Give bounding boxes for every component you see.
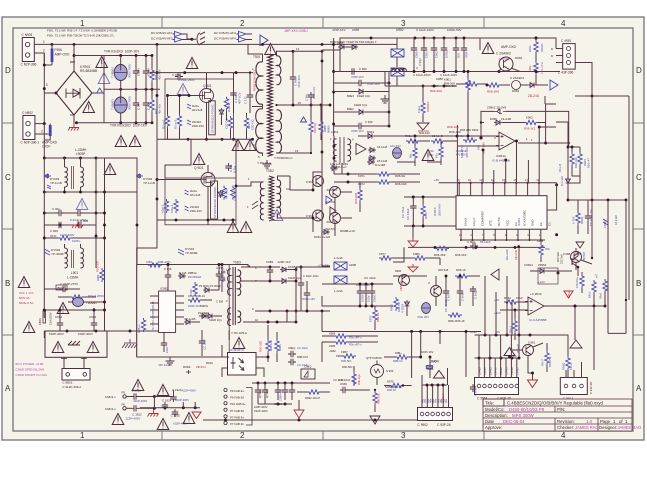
diode 41D19: [405, 300, 410, 308]
svg-text:K977: K977: [379, 252, 386, 256]
title block: [483, 399, 632, 431]
svg-text:R9B+x: R9B+x: [137, 324, 141, 333]
svg-text:ZD9-15V: ZD9-15V: [190, 209, 202, 213]
svg-text:K06x: K06x: [528, 65, 532, 72]
resistor col tr2: [592, 280, 596, 294]
svg-text:K02P-400V: K02P-400V: [182, 389, 196, 393]
svg-text:R96x R06-1K: R96x R06-1K: [448, 319, 465, 323]
wire T902 sec leads: [278, 214, 314, 218]
svg-text:D965: D965: [490, 117, 497, 121]
wire x594 down: [593, 306, 595, 370]
svg-text:K3D OQ: K3D OQ: [251, 119, 255, 130]
capacitor C906: [56, 222, 64, 228]
wire ic pin up2: [505, 160, 507, 183]
svg-text:470P-1KV: 470P-1KV: [351, 129, 364, 133]
capacitor C96Q: [470, 286, 476, 294]
svg-text:40x 43V: 40x 43V: [158, 69, 162, 80]
svg-text:C962: C962: [435, 51, 439, 58]
capacitor C9x7 sb: [161, 340, 167, 348]
transformer T901 core: [268, 54, 273, 156]
svg-text:3: 3: [401, 431, 406, 440]
svg-text:K972: K972: [369, 315, 373, 322]
open triangle q961 gnd: [528, 380, 538, 388]
resistor R9B-10: [188, 298, 202, 302]
wire right edge rail: [575, 95, 629, 97]
svg-text:C 1924: C 1924: [162, 399, 172, 403]
warning triangle amp: [482, 43, 494, 54]
resistor R908 gate: [224, 97, 228, 111]
svg-text:C9BQ: C9BQ: [304, 365, 311, 369]
svg-text:R9B1: R9B1: [278, 344, 282, 351]
svg-text:470P: 470P: [465, 51, 469, 58]
resistor R0B-1H0: [266, 339, 270, 353]
connector CN9B3: [475, 378, 519, 401]
wire q2 vbus2: [388, 72, 390, 127]
transistor Q960 ring: [499, 57, 513, 71]
wire sec out mid: [310, 100, 312, 105]
wire bridge left lead: [44, 92, 56, 94]
svg-text:R9x5: R9x5: [599, 292, 603, 299]
resistor R914: [174, 199, 178, 213]
svg-text:23C 9x6: 23C 9x6: [560, 254, 564, 264]
svg-text:P7 FAB-9+: P7 FAB-9+: [230, 415, 244, 419]
svg-text:IC-9.A455BB: IC-9.A455BB: [529, 318, 547, 322]
svg-text:C9+9: C9+9: [569, 363, 573, 370]
inductor L963 xbox: [391, 68, 404, 76]
capacitor C904: [133, 100, 139, 108]
svg-text:60x: 60x: [409, 153, 413, 158]
transformer T903: [226, 261, 259, 336]
box lower driver: [165, 178, 236, 225]
wire choke bottom rail: [44, 191, 96, 193]
capacitor bm3: [289, 387, 295, 395]
resistor R96x h1: [406, 139, 420, 143]
svg-text:IC-T09 L02P2BG5R-M: IC-T09 L02P2BG5R-M: [151, 301, 155, 330]
capacitor sec c1: [298, 280, 304, 288]
resistor K971: [377, 172, 391, 176]
capacitor C962b: [431, 45, 437, 53]
wire gate row: [168, 95, 202, 97]
svg-text:2: 2: [240, 431, 245, 440]
resistor R9B4 otp: [395, 355, 409, 359]
wire bottom long rail: [252, 419, 418, 421]
svg-text:R06-1K: R06-1K: [456, 268, 466, 272]
svg-text:1000u 50V: 1000u 50V: [447, 28, 462, 32]
svg-text:R05x: R05x: [528, 45, 532, 52]
wire sec vert 296: [295, 267, 297, 311]
svg-text:C9+x3: C9+x3: [505, 367, 509, 375]
wire right col rail2: [568, 199, 626, 201]
wire opto left pins: [222, 345, 228, 357]
svg-text:C 10uF-100x: C 10uF-100x: [303, 274, 319, 278]
TVR box sides: [103, 56, 105, 90]
zener z9962 sym: [494, 109, 506, 113]
capacitor C965b: [411, 45, 417, 53]
svg-text:B9E2: B9E2: [347, 107, 354, 111]
small transformer T951: [330, 130, 354, 169]
svg-text:A9x: A9x: [445, 398, 448, 403]
svg-text:1000u: 1000u: [445, 50, 449, 58]
svg-text:IC9B2: IC9B2: [160, 287, 169, 291]
svg-text:R06-9H6: R06-9H6: [395, 182, 407, 186]
svg-text:CC 10uF: CC 10uF: [406, 208, 410, 220]
svg-text:C 912P-396-2: C 912P-396-2: [62, 385, 81, 389]
wire q4 feed: [322, 265, 330, 267]
svg-text:F901 T5.1-6W R06-1-F T2 5-6: F901 T5.1-6W R06-1-F T2 5-6W +1.5K/6BER …: [47, 29, 117, 33]
capacitor C474: [60, 286, 68, 292]
svg-text:MIDE 8 5A: MIDE 8 5A: [19, 301, 34, 305]
svg-text:Model/Co:: Model/Co:: [485, 407, 505, 412]
wire cn9b3 feed: [518, 247, 520, 358]
warning triangle bl4: [157, 419, 169, 430]
svg-text:P/N:: P/N:: [557, 407, 565, 412]
svg-text:B9E3: B9E3: [347, 94, 354, 98]
transistor Q951: [313, 176, 324, 187]
svg-text:C 2SA9K2: C 2SA9K2: [510, 76, 524, 80]
svg-text:C 93P-2D: C 93P-2D: [589, 382, 593, 394]
diode D965 pair: [494, 120, 502, 125]
svg-text:12: 12: [296, 47, 300, 51]
wire mid right rail: [385, 71, 560, 73]
IC901 top pins: [458, 183, 460, 196]
svg-text:JMP-XXX-XXBU: JMP-XXX-XXBU: [284, 29, 308, 33]
capacitor C1924: [162, 402, 168, 410]
resistor R sec: [309, 120, 313, 134]
wire left bus to Q902: [156, 139, 158, 220]
connector CN951: [558, 39, 575, 75]
wire left feed: [334, 173, 377, 175]
svg-text:222P+400V: 222P+400V: [126, 416, 141, 420]
svg-text:K1ER 1Qx: K1ER 1Qx: [354, 103, 368, 107]
wire bridge right lead: [92, 89, 160, 93]
resistor R964 col: [578, 152, 582, 166]
resistor fb: [463, 138, 477, 142]
diode D916 sb: [178, 274, 186, 279]
wire cn9d2 up: [447, 368, 449, 385]
svg-text:R0B-1H0: R0B-1H0: [269, 339, 273, 351]
resistor sb v: [193, 282, 197, 296]
wire caps row2: [44, 224, 96, 226]
diode ZH904: [185, 190, 189, 195]
wire q4 mid rails: [393, 275, 427, 277]
capacitor bank q4 2: [363, 288, 369, 296]
capacitor C910: [143, 100, 149, 108]
capacitor C911: [225, 163, 231, 171]
resistor R966c: [394, 297, 398, 311]
svg-text:50W 4A: 50W 4A: [19, 296, 30, 300]
wire t903 tap6: [241, 266, 280, 268]
resistor R04-9: [70, 295, 84, 299]
wire q961 to conn: [528, 366, 533, 380]
capacitor C966b: [461, 45, 467, 53]
svg-text:K0x: K0x: [435, 153, 439, 158]
capacitor CC10uF sb: [199, 338, 205, 346]
svg-text:40x 45x: 40x 45x: [158, 103, 162, 114]
svg-text:S 963: S 963: [386, 369, 394, 373]
svg-text:P7 FAB-9x: P7 FAB-9x: [230, 422, 244, 426]
diode ZH903: [187, 104, 191, 109]
svg-text:LM61: LM61: [331, 130, 339, 134]
svg-text:R9B9: R9B9: [323, 125, 327, 132]
svg-text:R942: R942: [504, 296, 511, 300]
open arrow right: [550, 80, 558, 90]
svg-text:E2: E2: [539, 222, 543, 226]
svg-text:Y-TR-92-A: Y-TR-92-A: [257, 161, 271, 165]
relay contact symbol: [68, 341, 80, 345]
transistor Q967: [431, 286, 442, 297]
IC901 KA7500 box: [456, 196, 547, 230]
transistor Q96Bt: [572, 256, 578, 267]
resistor R96x h2: [431, 139, 445, 143]
svg-text:C961: C961: [425, 51, 429, 58]
svg-text:30B: 30B: [606, 285, 610, 290]
svg-text:R96x: R96x: [424, 212, 428, 219]
svg-text:D: D: [551, 47, 553, 51]
resistor R913: [164, 199, 168, 213]
capacitor C9B3: [267, 267, 273, 275]
svg-text:D962: D962: [515, 56, 523, 60]
svg-text:K971: K971: [358, 174, 365, 178]
svg-text:S-TR-9+C: S-TR-9+C: [333, 165, 347, 169]
resistor R06-960: [358, 188, 362, 202]
svg-text:C 2SA9K2: C 2SA9K2: [496, 52, 511, 56]
resistor box C96Q: [426, 366, 432, 369]
wire x466 down: [465, 332, 467, 378]
svg-text:B: B: [636, 279, 641, 288]
capacitor C906 q2: [349, 68, 357, 74]
wire q2 left bus: [333, 38, 335, 136]
capacitor bm4: [340, 387, 348, 393]
svg-text:JAMES RAO: JAMES RAO: [575, 425, 599, 430]
wire relay leads: [63, 357, 65, 368]
svg-text:20A733: 20A733: [327, 188, 338, 192]
resistor K972: [377, 180, 391, 184]
svg-text:100V: 100V: [367, 295, 371, 302]
svg-text:D 916: D 916: [179, 271, 187, 275]
svg-text:4: 4: [561, 431, 566, 440]
varistor TVR903: [114, 97, 127, 113]
svg-text:40x+x0C: 40x+x0C: [505, 249, 509, 260]
open triangle bm: [370, 416, 380, 424]
wire conn to bus: [575, 63, 592, 70]
svg-text:1: 1: [80, 19, 85, 28]
capacitor CC10uF ic: [410, 203, 416, 211]
svg-text:D962: D962: [512, 89, 520, 93]
svg-text:C 909: C 909: [365, 120, 373, 124]
svg-text:STRW6302/02 P3W02C: STRW6302/02 P3W02C: [213, 187, 217, 218]
CN9D2 pin stubs: [421, 385, 423, 408]
svg-text:B964: B964: [367, 130, 374, 134]
svg-text:K0x+1: K0x+1: [161, 204, 165, 213]
svg-text:R9a6: R9a6: [537, 239, 544, 243]
open triangle T951: [356, 144, 366, 155]
svg-text:YP-4D4B: YP-4D4B: [51, 252, 64, 256]
svg-text:0 71B: 0 71B: [572, 217, 576, 224]
svg-text:C 903: C 903: [137, 68, 141, 76]
ground opampB: [408, 264, 418, 272]
svg-text:+12V: +12V: [538, 280, 545, 284]
standby box: [137, 265, 230, 358]
resistor col tr3: [603, 279, 607, 293]
svg-text:C: C: [636, 173, 642, 182]
capacitor C962 sec: [308, 92, 314, 100]
transistor Q952: [313, 210, 324, 221]
transformer T902 core: [269, 176, 274, 221]
resistor R9B5: [373, 391, 377, 405]
svg-text:C N903: C N903: [22, 33, 33, 37]
svg-text:K9B7: K9B7: [436, 77, 444, 81]
svg-text:K986: K986: [329, 344, 336, 348]
capacitor C961b: [421, 45, 427, 53]
wire CN901 pin1 to bus: [34, 43, 52, 45]
warning triangle pair B1: [227, 222, 239, 233]
svg-text:C 91x: C 91x: [172, 73, 180, 77]
wire bm verts: [257, 383, 259, 387]
svg-text:R9D9: R9D9: [183, 365, 191, 369]
resistor R962L: [100, 268, 104, 282]
wire bridge bottom: [73, 115, 75, 124]
svg-text:C 906: C 906: [216, 300, 224, 304]
wire bm rail3: [203, 419, 252, 421]
wire right col top: [556, 121, 568, 123]
warning triangle bl3: [112, 414, 124, 425]
svg-text:R06-100: R06-100: [418, 129, 429, 133]
svg-text:DC R.B/4V-AF3: DC R.B/4V-AF3: [214, 31, 236, 35]
wire cn9b3 rail: [475, 357, 520, 359]
svg-text:50V: 50V: [457, 53, 461, 58]
relay box: [45, 331, 107, 357]
svg-text:R06-960: R06-960: [354, 193, 358, 204]
capacitor C909 q2: [356, 123, 364, 129]
warning triangle pair B2: [240, 222, 252, 233]
svg-text:18 k1x8: 18 k1x8: [614, 215, 618, 225]
svg-text:K9B7: K9B7: [341, 350, 348, 354]
capacitor bank q4 3: [369, 288, 375, 296]
svg-text:K9Bx: K9Bx: [413, 252, 420, 256]
svg-text:TVR K2x1KD 102P-1KV: TVR K2x1KD 102P-1KV: [104, 50, 140, 54]
svg-text:F90x T5.1-6W R06-T2K2W T2 5-: F90x T5.1-6W R06-T2K2W T2 5-6-W 15K/C6BX…: [47, 34, 115, 38]
svg-text:C 904: C 904: [137, 102, 141, 110]
wire filter to bottom: [43, 248, 45, 318]
svg-text:+5V: +5V: [494, 298, 499, 302]
wire mid vertical 1: [165, 139, 191, 178]
wire right vertical bus1: [591, 69, 593, 135]
wire ic pin up1: [482, 150, 484, 183]
svg-text:KA(-)I: KA(-)I: [472, 218, 476, 226]
svg-text:0 961: 0 961: [528, 341, 536, 345]
svg-text:R06-x5x: R06-x5x: [548, 356, 552, 367]
capacitor sec c2: [304, 290, 310, 298]
resistor R942: [504, 300, 518, 304]
svg-text:CN9D SHORT IN USN: CN9D SHORT IN USN: [16, 373, 47, 377]
warning triangle bl1: [132, 380, 144, 391]
svg-text:A9x: A9x: [429, 398, 432, 403]
svg-text:K02P-400V: K02P-400V: [78, 332, 93, 336]
resistor K9B7 top: [342, 354, 356, 358]
svg-text:L96B: L96B: [349, 263, 356, 267]
ground T901 shield: [263, 160, 272, 168]
wire feed rail2: [397, 161, 415, 163]
inductor L-G4A: [334, 262, 347, 270]
svg-text:YP-1x1B: YP-1x1B: [50, 181, 62, 185]
resistor R sec2: [319, 120, 323, 134]
open arrow down q2: [417, 123, 429, 130]
svg-text:1: 1: [80, 431, 85, 440]
capacitor C913: [230, 90, 236, 98]
capacitor C960 q2: [356, 80, 364, 86]
svg-text:+12V: +12V: [494, 311, 501, 315]
svg-text:R06-33D: R06-33D: [259, 341, 263, 352]
svg-text:12K R0x+: 12K R0x+: [575, 276, 579, 288]
svg-text:C 43P-396: C 43P-396: [558, 71, 573, 75]
capacitor C964b: [453, 45, 459, 53]
svg-text:R0D-220: R0D-220: [96, 260, 100, 272]
svg-text:C 909: C 909: [147, 68, 151, 76]
svg-text:D450-80/10/03-P8: D450-80/10/03-P8: [509, 407, 545, 412]
svg-text:15: 15: [298, 101, 302, 105]
wire sec out upper: [293, 50, 322, 51]
svg-text:N9T5: N9T5: [387, 380, 394, 384]
resistor R96x v3: [413, 146, 417, 160]
resistor R960 bot: [435, 246, 449, 250]
CN954 pin stubs: [565, 370, 567, 378]
net stub symbol: [192, 32, 205, 45]
wire hv top right: [340, 50, 385, 72]
transistor Q96B: [571, 252, 582, 263]
svg-text:16: 16: [468, 178, 472, 182]
connector CN901: [21, 33, 37, 67]
fuse F907: [49, 125, 52, 136]
svg-text:TVR903: TVR903: [111, 99, 115, 110]
diode YP-1x1B sb: [184, 320, 192, 325]
open triangle red bl: [192, 412, 201, 419]
svg-text:K1D OQ: K1D OQ: [225, 118, 229, 129]
svg-text:470 92V: 470 92V: [456, 153, 466, 157]
svg-text:3: 3: [46, 83, 48, 87]
svg-text:1N+1x8: 1N+1x8: [560, 176, 564, 186]
svg-text:STRW6302/10 P3W0C: STRW6302/10 P3W0C: [211, 104, 215, 133]
warning triangle bridge lower: [83, 102, 95, 113]
svg-text:P9 FAB-92: P9 FAB-92: [230, 396, 244, 400]
svg-text:A9x: A9x: [424, 398, 427, 403]
svg-text:L-G4A: L-G4A: [334, 289, 343, 293]
svg-text:+6V: +6V: [434, 178, 439, 182]
svg-text:R96Q: R96Q: [562, 362, 566, 370]
resistor R906: [165, 114, 169, 128]
warning triangle below TVR 1: [115, 136, 127, 147]
svg-text:K980: K980: [336, 354, 343, 358]
diode DY902: [44, 249, 50, 255]
diode vert col: [566, 177, 571, 185]
svg-text:T9D3: T9D3: [233, 261, 241, 265]
box around Z9954: [538, 268, 558, 284]
pin P5: [123, 395, 126, 398]
capacitor C916 sb: [165, 272, 171, 280]
wire cn9b3 up v2: [495, 292, 497, 335]
svg-text:Designer:: Designer:: [599, 425, 617, 430]
svg-text:A022C: A022C: [540, 43, 544, 52]
warning triangle drv2: [177, 84, 189, 95]
svg-text:15: 15: [502, 178, 506, 182]
diode pair q2 c: [357, 89, 365, 94]
capacitor C9Rx bot: [470, 243, 478, 249]
wire drv2 bottom rail: [157, 219, 236, 221]
capacitor C915 snubber: [175, 73, 183, 79]
wire hv bus right: [96, 158, 137, 192]
T902 primary lower: [260, 203, 263, 220]
svg-text:R0B-1D: R0B-1D: [393, 359, 403, 363]
svg-text:OFF 1 17A: OFF 1 17A: [19, 291, 34, 295]
